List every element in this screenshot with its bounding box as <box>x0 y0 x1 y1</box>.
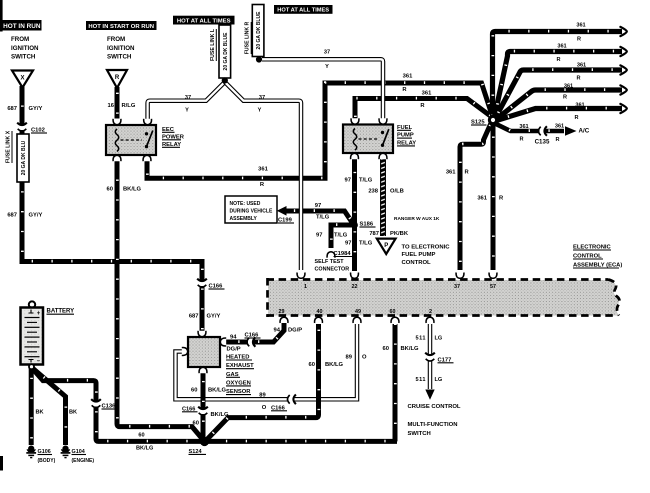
svg-text:BK/LG: BK/LG <box>123 187 142 193</box>
svg-text:R: R <box>577 37 581 43</box>
wire 60 BK/LG : EEC relay ground to S124 <box>117 161 205 442</box>
svg-text:(ENGINE): (ENGINE) <box>72 458 95 464</box>
label HEATED EXHAUST GAS OXYGEN SENSOR <box>226 355 254 396</box>
ECA pin connector cups top <box>297 273 497 279</box>
relay EEC POWER RELAY <box>106 125 156 155</box>
wire 94 DG/P : HEGO sensor to ECA pin 29 <box>225 323 284 342</box>
label 97 T/LG upper <box>345 178 373 184</box>
svg-text:29: 29 <box>279 309 285 315</box>
wire 687 GY/Y lower : fuse link X to HEGO <box>22 181 202 334</box>
svg-text:FROM: FROM <box>107 36 125 43</box>
svg-text:361: 361 <box>477 196 487 202</box>
arrowhead A/C <box>565 126 577 136</box>
electronic control assembly (ECA) box <box>267 278 620 317</box>
wire 37 Y : fuse link R to fuel pump relay <box>262 59 383 119</box>
connector C102 <box>17 123 47 134</box>
svg-text:GY/Y: GY/Y <box>29 106 43 112</box>
label 16 R/LG <box>108 103 136 109</box>
svg-text:MULTI-FUNCTION: MULTI-FUNCTION <box>408 422 458 428</box>
connector C136 <box>91 399 117 409</box>
page border bar top-left <box>0 0 3 32</box>
svg-text:FUEL PUMP: FUEL PUMP <box>402 252 436 258</box>
svg-text:22: 22 <box>352 284 358 290</box>
splice S124 <box>189 437 210 455</box>
svg-text:2: 2 <box>429 309 432 315</box>
svg-text:PK/BK: PK/BK <box>390 231 409 237</box>
labels 361 R fan #3 <box>576 63 586 82</box>
text to electronic fuel pump control <box>402 245 451 266</box>
svg-text:60: 60 <box>191 388 197 394</box>
header HOT IN RUN <box>2 20 42 31</box>
wire 361 R fan #2 from S125 <box>494 47 627 118</box>
svg-text:361: 361 <box>258 166 268 172</box>
svg-text:687: 687 <box>7 213 17 219</box>
labels 361 R to pin 57 <box>477 196 504 202</box>
svg-text:97: 97 <box>316 233 322 239</box>
svg-text:T/LG: T/LG <box>316 215 330 221</box>
wire 37 Y : fuse link L left branch to EEC relay <box>148 82 225 119</box>
labels 94 DG/P + connector C166 on pin29 wire <box>227 328 303 353</box>
svg-text:687: 687 <box>7 106 17 112</box>
svg-text:IGNITION: IGNITION <box>107 45 135 52</box>
labels 60 BK/LG + C166 on HEGO ground <box>182 388 229 427</box>
svg-text:20 GA DK BLUE: 20 GA DK BLUE <box>256 11 262 50</box>
svg-text:238: 238 <box>368 189 378 195</box>
svg-text:+: + <box>37 311 41 317</box>
wire 16 R/LG : triangle R to EEC relay <box>115 87 120 119</box>
svg-text:R: R <box>555 137 559 143</box>
svg-text:1: 1 <box>304 284 307 290</box>
svg-text:T/LG: T/LG <box>334 233 348 239</box>
svg-text:511: 511 <box>415 377 426 383</box>
ECA label <box>573 245 622 269</box>
label 687 GY/Y lower <box>7 213 42 219</box>
svg-text:361: 361 <box>575 102 584 108</box>
svg-text:361: 361 <box>422 90 432 96</box>
fuse link R body 20 GA DK BLUE <box>252 5 264 57</box>
svg-text:20 GA DK BLU: 20 GA DK BLU <box>21 140 27 175</box>
header HOT AT ALL TIMES (right) <box>274 5 333 14</box>
svg-text:O/LB: O/LB <box>390 189 404 195</box>
fuse link L body 20 GA DK BLUE <box>219 25 231 78</box>
svg-text:T/LG: T/LG <box>359 241 373 247</box>
svg-text:CONTROL: CONTROL <box>402 260 432 266</box>
wire BK : battery to ground G104 <box>32 367 66 445</box>
svg-text:RANGER W AUX 1K: RANGER W AUX 1K <box>394 216 440 222</box>
ECA pin connector cups bottom <box>280 317 434 323</box>
svg-text:T/LG: T/LG <box>359 178 373 184</box>
ground G106 (body) <box>26 446 55 464</box>
svg-text:LG: LG <box>435 336 443 342</box>
labels 361 R fan #4 <box>563 84 573 101</box>
labels 361 R fan #5 <box>574 102 584 121</box>
triangle connector X (hot in run feed) <box>12 71 33 88</box>
svg-text:361: 361 <box>446 170 456 176</box>
splice dot fuse link L <box>222 77 228 83</box>
labels 361 R fan #1 <box>576 22 585 42</box>
svg-text:361: 361 <box>555 124 564 130</box>
HEGO heated exhaust gas oxygen sensor <box>188 337 220 367</box>
svg-text:BK: BK <box>36 410 44 416</box>
svg-text:57: 57 <box>490 284 496 290</box>
svg-text:361: 361 <box>576 22 585 28</box>
labels 89 O + C166 on pin49 wire <box>259 355 367 412</box>
labels 361 R on A/C wire + C135 <box>519 124 589 146</box>
wire 361 R fan #3 from S125 <box>495 65 627 118</box>
svg-text:NOTE: USED: NOTE: USED <box>230 201 261 207</box>
svg-text:37: 37 <box>454 284 460 290</box>
svg-text:R/LG: R/LG <box>122 103 136 109</box>
svg-text:FROM: FROM <box>11 36 29 43</box>
svg-text:BATTERY: BATTERY <box>47 309 75 315</box>
battery <box>21 301 44 369</box>
svg-text:IGNITION: IGNITION <box>11 45 39 52</box>
svg-text:94: 94 <box>274 328 281 334</box>
fuse link X label <box>6 130 12 163</box>
svg-text:FUSE LINK R: FUSE LINK R <box>245 21 251 54</box>
fuse link L label <box>210 28 217 61</box>
svg-text:R: R <box>115 75 120 81</box>
splice S186 <box>351 222 375 229</box>
svg-text:361: 361 <box>564 84 573 90</box>
labels 37 Y fuse link R run <box>324 49 330 70</box>
header HOT IN START OR RUN <box>86 21 157 30</box>
svg-text:ASSEMBLY: ASSEMBLY <box>230 216 258 222</box>
svg-text:R: R <box>519 137 523 143</box>
label EEC POWER RELAY <box>162 127 185 148</box>
svg-text:BK/LG: BK/LG <box>136 446 153 452</box>
svg-text:20 GA DK BLUE: 20 GA DK BLUE <box>223 32 229 71</box>
label BATTERY <box>47 309 75 315</box>
wire 361 R fan #4 from S125 <box>496 85 627 119</box>
page border bar bottom-left <box>0 456 3 471</box>
labels 60 BK/LG pin 60 wire <box>383 346 419 352</box>
connector C166 on 687 wire <box>197 279 224 290</box>
svg-text:HOT IN RUN: HOT IN RUN <box>3 23 41 30</box>
svg-text:SELF TEST: SELF TEST <box>315 259 345 265</box>
svg-text:16: 16 <box>108 103 115 109</box>
svg-text:37: 37 <box>185 95 191 101</box>
svg-text:O: O <box>362 355 367 361</box>
fuse link R label <box>245 21 252 54</box>
splice S125 <box>471 115 498 126</box>
labels BK BK <box>36 410 78 416</box>
EEC relay terminal cups <box>113 119 152 161</box>
labels 37 Y left branch <box>185 95 191 114</box>
svg-text:A/C: A/C <box>579 128 590 135</box>
svg-text:37: 37 <box>259 95 265 101</box>
labels 361 R fan #2 <box>556 44 566 64</box>
svg-text:TO ELECTRONIC: TO ELECTRONIC <box>402 245 451 251</box>
svg-text:DURING VEHICLE: DURING VEHICLE <box>230 208 273 214</box>
label 687 GY/Y upper <box>7 106 42 112</box>
svg-text:361: 361 <box>403 73 413 79</box>
svg-text:CRUISE CONTROL: CRUISE CONTROL <box>408 404 461 410</box>
ECA pin numbers bottom <box>279 309 433 315</box>
svg-text:60: 60 <box>107 187 113 193</box>
labels 361 R to pin 37 <box>446 170 470 176</box>
wire 361 R : S125 to A/C through C135 <box>495 123 564 131</box>
svg-text:(BODY): (BODY) <box>38 458 56 464</box>
svg-text:FUSE LINK X: FUSE LINK X <box>6 130 12 163</box>
svg-text:SWITCH: SWITCH <box>11 54 36 61</box>
connector C1984 <box>327 251 354 258</box>
svg-text:687: 687 <box>189 314 199 320</box>
wire 687 GY/Y upper (fuse link X feed) <box>20 86 25 135</box>
svg-text:60: 60 <box>138 432 144 438</box>
wire 361 R : EEC relay to S125 <box>147 83 493 179</box>
svg-text:60: 60 <box>193 420 199 426</box>
triangle connector R (hot in start or run feed) <box>107 70 127 88</box>
svg-text:40: 40 <box>317 309 323 315</box>
wire 37 Y : fuse link L right branch to ECA pin 1 <box>225 82 301 270</box>
svg-text:Y: Y <box>325 64 329 70</box>
note box (used during vehicle assembly) <box>225 196 277 223</box>
wire 89 O : HEGO left loop to ECA pin 49 <box>176 324 358 399</box>
svg-text:511: 511 <box>415 336 426 342</box>
wire 361 R : S125 to ECA pin 57 <box>491 124 496 270</box>
labels 37 Y right branch <box>258 95 265 114</box>
labels 511 LG + C177 cruise wire <box>415 336 453 384</box>
svg-text:R: R <box>556 57 560 63</box>
svg-text:DG/P: DG/P <box>227 347 241 353</box>
ECA pin numbers top <box>304 284 496 290</box>
wire 238 O/LB / 787 PK/BK : fuel pump relay to P triangle <box>380 157 386 236</box>
relay FUEL PUMP RELAY <box>343 125 393 154</box>
svg-text:FUSE LINK L: FUSE LINK L <box>210 28 216 61</box>
labels 60 BK/LG pin 40 wire <box>309 362 344 368</box>
wire 60 BK/LG : HEGO sensor ground to S124 <box>201 373 206 440</box>
svg-text:BK/LG: BK/LG <box>401 346 420 352</box>
svg-text:R: R <box>563 95 567 101</box>
wire 97 T/LG : S186 arm to C199 note arrow <box>286 211 355 226</box>
wire 60 BK/LG : ECA pin 40 to S124 <box>205 324 319 442</box>
svg-text:DG/P: DG/P <box>288 328 302 334</box>
splice dot fuse link R <box>256 56 262 62</box>
ground bus : battery through C136 and S124 to pin60 wire <box>32 367 398 441</box>
wire 361 R : S125 to ECA pin 37 <box>460 122 492 270</box>
svg-text:60: 60 <box>390 309 396 315</box>
label 97 T/LG to pin 22 <box>345 241 373 247</box>
svg-text:C135: C135 <box>535 139 550 146</box>
text from ignition switch (left) <box>11 36 39 61</box>
ground G104 (engine) <box>61 446 95 464</box>
arrowhead to C199 <box>277 206 287 216</box>
wire 60 BK/LG : ECA pin 60 down to ground bus <box>393 324 398 442</box>
svg-text:97: 97 <box>315 203 321 209</box>
wire 361 R : fuel pump relay to S125 <box>355 98 491 121</box>
svg-text:89: 89 <box>346 355 353 361</box>
label 687 GY/Y at HEGO <box>189 314 221 320</box>
labels 60 BK/LG ground bus <box>136 432 153 451</box>
svg-text:X: X <box>20 76 24 82</box>
svg-text:HOT AT ALL TIMES: HOT AT ALL TIMES <box>177 18 231 24</box>
svg-text:361: 361 <box>577 63 586 69</box>
label 787 PK/BK <box>369 231 409 237</box>
wire 97 T/LG : S186 branch to self test connector C1984 <box>331 225 355 248</box>
svg-text:97: 97 <box>345 241 351 247</box>
svg-text:Y: Y <box>185 108 189 114</box>
HEGO terminal cups <box>182 331 226 373</box>
svg-text:97: 97 <box>345 178 351 184</box>
svg-text:361: 361 <box>557 44 566 50</box>
svg-text:787: 787 <box>369 231 379 237</box>
label 97 T/LG note arm <box>315 203 330 221</box>
wire BK : battery to ground G106 <box>29 367 34 445</box>
svg-text:P: P <box>384 243 388 249</box>
svg-text:361: 361 <box>519 124 528 130</box>
svg-text:SWITCH: SWITCH <box>408 431 431 437</box>
svg-text:GY/Y: GY/Y <box>29 213 43 219</box>
labels 361 R on FPR-S125 wire <box>420 90 432 109</box>
label 238 O/LB <box>368 189 404 195</box>
svg-text:94: 94 <box>230 335 237 341</box>
svg-text:CONNECTOR: CONNECTOR <box>315 267 350 273</box>
svg-text:BK/LG: BK/LG <box>325 362 344 368</box>
svg-text:SWITCH: SWITCH <box>107 54 132 61</box>
wire 97 T/LG : fuel pump relay through S186 to ECA pin 22 <box>352 157 357 271</box>
header HOT AT ALL TIMES (left) <box>173 16 235 25</box>
wire 361 R fan #5 from S125 <box>496 104 627 121</box>
connector C199 label <box>278 218 294 224</box>
svg-text:37: 37 <box>324 49 330 55</box>
svg-text:LG: LG <box>435 377 443 383</box>
svg-text:R: R <box>576 75 580 81</box>
svg-text:49: 49 <box>355 309 361 315</box>
label cruise control multi-function switch <box>408 404 461 437</box>
svg-text:HOT IN START OR RUN: HOT IN START OR RUN <box>88 24 154 30</box>
text from ignition switch (right) <box>107 36 135 61</box>
FPR terminal cups <box>351 118 387 159</box>
labels 361 R on EEC-S125 wire <box>258 73 413 188</box>
svg-text:R: R <box>574 115 578 121</box>
label self test connector <box>315 259 350 273</box>
label 60 BK/LG EEC ground <box>107 187 142 193</box>
wire 511 LG : ECA pin 2 to cruise control <box>425 324 434 400</box>
svg-text:60: 60 <box>309 362 315 368</box>
svg-text:89: 89 <box>259 392 266 398</box>
svg-text:BK/LG: BK/LG <box>211 412 230 418</box>
triangle connector P (to electronic fuel pump control) <box>377 239 396 254</box>
label FUEL PUMP RELAY <box>397 125 416 147</box>
svg-text:60: 60 <box>383 346 389 352</box>
svg-text:O: O <box>262 405 267 411</box>
label 97 T/LG self test branch <box>316 233 348 239</box>
svg-text:Y: Y <box>258 108 262 114</box>
svg-text:HOT AT ALL TIMES: HOT AT ALL TIMES <box>277 8 329 14</box>
svg-text:GY/Y: GY/Y <box>207 314 221 320</box>
fuse link X body 20 GA DK BLU <box>17 134 29 182</box>
svg-text:BK: BK <box>69 410 77 416</box>
wire 361 R fan #1 from S125 <box>493 27 627 116</box>
svg-text:BK/LG: BK/LG <box>208 388 227 394</box>
